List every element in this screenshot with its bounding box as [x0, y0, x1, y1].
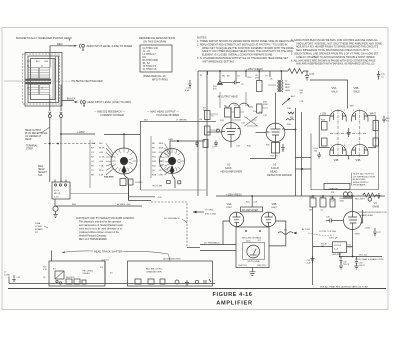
diode V5B upper dome — [352, 110, 369, 121]
junction dots on meter top — [245, 230, 247, 232]
capacitor C between rows — [347, 128, 351, 137]
bracket — [350, 173, 353, 186]
vertical bus x298 — [301, 112, 303, 196]
svg-text:FROM AMPL: FROM AMPL — [353, 184, 367, 187]
svg-text:2: 2 — [331, 110, 332, 112]
feeder stubs from +105 bus — [208, 71, 282, 81]
svg-text:V6B: V6B — [272, 202, 277, 206]
svg-text:AT 105V: AT 105V — [302, 228, 311, 231]
diode V5A lower dome — [330, 144, 347, 155]
svg-text:68.1K: 68.1K — [99, 148, 105, 150]
coil L2 upper right — [40, 68, 50, 79]
box track shifter right — [128, 261, 213, 286]
connector J-head-level — [74, 100, 85, 106]
meter M1 — [247, 245, 260, 258]
svg-text:DETECTOR DRIVER: DETECTOR DRIVER — [267, 173, 292, 177]
wire through box1 — [9, 283, 215, 285]
svg-text:V1 THRU V6: V1 THRU V6 — [143, 68, 157, 71]
svg-text:750 PF: 750 PF — [359, 265, 366, 267]
wavy cable to V3 — [278, 232, 293, 235]
svg-text:GRN: GRN — [285, 90, 290, 92]
svg-text:CURRENT DIVIDER: CURRENT DIVIDER — [100, 113, 124, 117]
svg-text:HEAD: HEAD — [270, 170, 277, 174]
tick on left — [44, 226, 48, 228]
svg-text:NOTE: ADJ OUTPUT: NOTE: ADJ OUTPUT — [353, 173, 375, 176]
svg-text:BRN: BRN — [285, 84, 290, 86]
svg-text:100 KC BIAS & ERASE LEVEL: 100 KC BIAS & ERASE LEVEL — [355, 258, 385, 261]
arrow to grid — [193, 211, 204, 213]
wire BLACK output bottom — [62, 100, 74, 102]
svg-text:10K: 10K — [159, 161, 163, 163]
wires inside shield to plugs — [50, 85, 61, 108]
svg-text:ELEMENT IS CLOSED OVERALL COND: ELEMENT IS CLOSED OVERALL CONDITION REPA… — [202, 53, 273, 56]
wire V3 down — [352, 230, 354, 257]
terminal strip dashed line — [44, 143, 95, 145]
junction dots on feed bus — [219, 70, 221, 72]
wire bottom bus y205 — [55, 205, 142, 207]
wire V5 center tap down — [348, 156, 350, 160]
wire right rail to lower dome — [368, 147, 376, 149]
cluster under V2 — [272, 143, 280, 154]
phono head outer shield box — [25, 53, 62, 107]
svg-text:4.7K: 4.7K — [348, 247, 353, 249]
ground in box2 — [185, 280, 189, 286]
wire +105V feed bus — [198, 70, 288, 72]
svg-text:SELF IMPEDANCE TOTAL BACK: SELF IMPEDANCE TOTAL BACKGROUND CHECK PO… — [296, 49, 369, 52]
box track shifter left — [49, 261, 105, 286]
reference designations box — [140, 45, 172, 72]
wire +105V left line — [61, 133, 140, 136]
svg-text:V6A: V6A — [227, 202, 232, 206]
svg-text:LR 23-4: LR 23-4 — [334, 245, 342, 247]
wire TB1 right bottom — [70, 193, 129, 195]
svg-text:GRN: GRN — [168, 139, 173, 141]
wire +105V REG bus — [216, 195, 385, 197]
svg-text:Hewlett-Packard Company.: Hewlett-Packard Company. — [79, 235, 107, 238]
svg-text:ITS BEING NEUTRALIZED: ITS BEING NEUTRALIZED — [71, 79, 103, 83]
cap on V3 grid — [330, 219, 332, 223]
svg-text:HEAD AMPLIFIER: HEAD AMPLIFIER — [221, 170, 243, 174]
svg-text:1M: 1M — [227, 76, 230, 78]
tube V6B circle — [261, 212, 275, 226]
terminal board TB1 — [52, 182, 70, 199]
wire dashed to meter — [151, 202, 187, 248]
svg-text:L2: L2 — [41, 65, 43, 67]
gray wire y190 — [141, 189, 206, 191]
svg-text:TO PIN 7 OF V4A: TO PIN 7 OF V4A — [319, 230, 336, 233]
svg-text:V5B: V5B — [354, 86, 359, 90]
svg-text:R7A: R7A — [152, 174, 157, 177]
svg-text:C18: C18 — [254, 202, 257, 204]
resistor R21 zigzag — [288, 69, 306, 74]
svg-text:CHANGEOVER: CHANGEOVER — [146, 270, 162, 273]
lower pole piece bar — [26, 82, 52, 84]
wire S1 bottom down — [124, 174, 129, 201]
wire V3 grid left — [332, 220, 344, 222]
svg-text:TO GRID: TO GRID — [205, 210, 214, 212]
svg-text:MAGNETICALLY SHIELDED PHONO HE: MAGNETICALLY SHIELDED PHONO HEAD — [16, 36, 72, 40]
svg-text:330K: 330K — [159, 143, 164, 145]
coil L4 lower right — [40, 85, 50, 95]
svg-text:201: 201 — [258, 240, 261, 242]
resistor R28 — [322, 122, 328, 131]
ground under pot — [54, 215, 58, 218]
svg-text:R44 BRN: R44 BRN — [104, 176, 114, 179]
svg-text:RED: RED — [57, 42, 63, 46]
svg-text:4.7K: 4.7K — [159, 166, 164, 168]
meter inner frame — [243, 243, 265, 260]
wire V3 plate right — [361, 210, 363, 223]
wire V1 grid left — [207, 131, 222, 133]
envelope centerline V5A — [337, 110, 339, 158]
svg-text:R51 R52: R51 R52 — [66, 277, 75, 279]
svg-text:REC LEVEL: REC LEVEL — [83, 271, 93, 273]
upper pole piece bar — [26, 79, 52, 81]
wire from S2 hub up and right — [170, 141, 205, 156]
svg-text:FIGURE 4-16: FIGURE 4-16 — [213, 292, 253, 298]
components left of V3 — [310, 198, 316, 207]
svg-text:V6A 7025: V6A 7025 — [238, 264, 248, 267]
svg-text:MIC IN: MIC IN — [54, 193, 61, 195]
wire V6B right — [269, 221, 286, 246]
cap C33 with ground — [355, 257, 359, 270]
svg-text:DC FEEDBACK: DC FEEDBACK — [164, 217, 180, 220]
vertical bus from +105 feed left — [197, 71, 199, 196]
cap C27 right of V3 — [373, 228, 376, 237]
switch S1 wafer (left spoked) — [111, 148, 137, 174]
wire x312.5 to bottom — [312, 247, 314, 286]
head output plug annotation — [25, 129, 48, 141]
capacitor bias — [377, 193, 380, 199]
leader to plug — [41, 127, 50, 133]
resistor R34 — [373, 138, 379, 146]
svg-text:220K: 220K — [263, 104, 268, 106]
svg-text:HEAD: HEAD — [38, 168, 45, 171]
wire T3 bottom down — [339, 253, 341, 257]
wire RED output top — [50, 46, 73, 68]
ref box contents — [143, 47, 159, 71]
svg-text:AS VIEWED AT: AS VIEWED AT — [25, 135, 42, 138]
arrow on cable — [293, 232, 297, 235]
connector J-zero-level — [69, 44, 85, 50]
S2 bottom terminal boxes — [167, 180, 171, 183]
tube V2 circle — [266, 123, 285, 142]
svg-text:HEAD INPUT LEVEL (LINE) TO AMP: HEAD INPUT LEVEL (LINE) TO AMPL — [87, 100, 132, 104]
svg-text:ADJ: ADJ — [291, 95, 295, 98]
svg-text:C2A: C2A — [91, 142, 96, 145]
V1 electrodes — [222, 123, 241, 142]
transformer T3 box — [333, 242, 347, 253]
left edge cap and ground — [9, 275, 16, 284]
svg-text:RED: RED — [285, 87, 290, 89]
svg-text:TERMINAL: TERMINAL — [26, 145, 38, 148]
svg-text:L1: L1 — [27, 65, 29, 67]
svg-text:(A) CHANGEOVER: (A) CHANGEOVER — [163, 258, 181, 261]
svg-text:R24: R24 — [246, 202, 249, 204]
svg-text:S1A: S1A — [38, 174, 43, 177]
TB1 pins — [55, 180, 66, 183]
components between V1 V2: resistor boxes — [205, 111, 211, 120]
svg-text:UNIT IMPEDANCE SETTING: UNIT IMPEDANCE SETTING — [202, 60, 234, 63]
wire T3 to V3 vertical — [347, 246, 353, 248]
pin labels V5 — [331, 110, 367, 147]
svg-text:VOLTAGE DIVIDER: VOLTAGE DIVIDER — [156, 113, 179, 117]
diode V5B lower dome — [352, 144, 369, 155]
svg-text:22K: 22K — [159, 157, 163, 159]
junction dot — [301, 168, 303, 170]
svg-text:203A: 203A — [35, 222, 41, 225]
right interstage transformer — [278, 80, 284, 92]
svg-text:produced without written conse: produced without written consent of the — [79, 231, 120, 234]
svg-text:and maintenance of Hewlett-Pac: and maintenance of Hewlett-Packard equip… — [79, 224, 124, 227]
resistor zigzag bias — [363, 193, 378, 197]
vertical bus x207 — [206, 71, 208, 196]
connector P1 pin left — [48, 112, 51, 120]
svg-text:7.5K: 7.5K — [99, 166, 104, 168]
wire divider vertical — [139, 121, 141, 190]
head gap line — [20, 80, 70, 82]
phono head middle shield box — [28, 56, 59, 103]
V6A electrodes — [233, 212, 241, 226]
pot arrow right — [282, 98, 290, 105]
svg-text:(VU): (VU) — [246, 240, 251, 242]
S1 label rail — [89, 140, 91, 188]
transformer T1 humps — [225, 103, 253, 107]
svg-text:T3 (T-20): T3 (T-20) — [359, 255, 368, 257]
svg-text:12AU6: 12AU6 — [271, 166, 279, 170]
V6B electrodes — [265, 212, 273, 226]
inner shield wall right — [53, 56, 56, 103]
svg-text:M1 (TS-101A): M1 (TS-101A) — [248, 260, 260, 263]
small parts in box2 — [195, 279, 211, 284]
S1 wires to wafer — [106, 144, 114, 176]
wire left rail of V5 — [319, 116, 330, 148]
V3 electrodes — [348, 212, 357, 231]
svg-text:7: 7 — [344, 110, 345, 112]
bracket note right — [353, 173, 375, 187]
meter box — [236, 227, 269, 268]
svg-text:PRI: PRI — [331, 192, 335, 194]
connector circle in box2 — [175, 280, 179, 284]
wire right vertical from P1 — [60, 120, 62, 183]
svg-text:150K: 150K — [340, 200, 345, 202]
svg-text:R14 1.5M: R14 1.5M — [153, 186, 163, 188]
wire V5 bottom joining — [330, 155, 368, 157]
svg-text:+105V: +105V — [77, 130, 85, 134]
svg-text:ADJ BAL LEVEL: ADJ BAL LEVEL — [146, 267, 163, 270]
svg-text:C6 R10: C6 R10 — [135, 182, 143, 184]
transformer labels — [285, 81, 290, 92]
svg-text:R17 270: R17 270 — [271, 156, 279, 158]
envelope centerline horizontal — [330, 132, 367, 134]
riser into box1 — [51, 251, 53, 262]
svg-text:AMPLIFIER: AMPLIFIER — [216, 301, 252, 307]
wire S2 bottom down — [172, 174, 175, 188]
svg-text:AF OUTPUT HEAD: AF OUTPUT HEAD — [218, 96, 238, 99]
svg-text:1: 1 — [331, 145, 332, 147]
ground below V5 left — [317, 152, 321, 158]
svg-text:L4: L4 — [41, 87, 43, 89]
svg-text:PLUG RECEPTACLE: PLUG RECEPTACLE — [25, 132, 48, 135]
svg-text:V6B 7025: V6B 7025 — [257, 265, 267, 267]
diode V5A upper dome — [330, 110, 347, 121]
V2 electrodes — [266, 123, 285, 142]
tube V1 circle — [222, 123, 241, 142]
envelope centerline V5B — [359, 110, 361, 158]
cap C32 with ground — [339, 257, 343, 270]
svg-text:4 µF: 4 µF — [307, 263, 312, 265]
labels left of V3 — [309, 197, 335, 212]
svg-text:REV 14-3 TRANSFERRED: REV 14-3 TRANSFERRED — [79, 238, 107, 241]
svg-text:1.8K: 1.8K — [159, 175, 164, 177]
svg-text:DC AMPLIFIER: DC AMPLIFIER — [242, 209, 258, 212]
wire node line y157 — [296, 157, 312, 159]
svg-text:6AU6: 6AU6 — [225, 166, 232, 170]
junction dot V2 out — [295, 129, 297, 131]
svg-text:(PIN 2) V6A: (PIN 2) V6A — [205, 213, 216, 216]
svg-text:SELECT: SELECT — [38, 172, 48, 174]
wire V2 plate right — [285, 129, 296, 131]
resistors in box2 — [135, 279, 141, 284]
wire V5 feed — [310, 80, 348, 109]
junction on left rail — [49, 143, 51, 145]
labels cluster — [200, 75, 295, 149]
svg-text:BLK-WHT: BLK-WHT — [355, 199, 366, 201]
svg-text:BOARD: BOARD — [35, 228, 43, 231]
svg-text:C16: C16 — [300, 101, 303, 103]
svg-text:12AX7: 12AX7 — [226, 206, 233, 209]
svg-text:47K: 47K — [213, 89, 217, 91]
svg-text:LT GREEN: LT GREEN — [176, 119, 187, 121]
box ORANGE — [324, 184, 350, 190]
components above DC amp left — [120, 179, 126, 186]
wire right rail of V5 — [368, 116, 376, 148]
notes column B — [291, 39, 382, 66]
ground under meter — [249, 268, 255, 276]
relay K1 — [55, 271, 64, 279]
svg-text:GREY: GREY — [355, 234, 361, 236]
transformer T2 core — [343, 192, 352, 198]
label mag head select — [38, 165, 48, 177]
svg-text:ON THIS DIAGRAM: ON THIS DIAGRAM — [143, 40, 166, 44]
head gap line left — [4, 80, 20, 82]
pot symbol — [53, 206, 58, 214]
svg-text:6AL5: 6AL5 — [332, 90, 339, 94]
phono head inner shield box — [31, 59, 56, 100]
wires into meter left — [200, 244, 236, 246]
svg-text:IN RECORD: IN RECORD — [353, 179, 366, 181]
capacitor C17 — [305, 71, 309, 81]
DC amplifier box — [241, 207, 263, 212]
svg-text:6AN8: 6AN8 — [373, 204, 380, 208]
cap C1 — [189, 80, 192, 89]
wire head lead right — [60, 108, 62, 112]
wire left rail to lower dome — [319, 147, 330, 149]
wire 100kc bus — [340, 256, 382, 258]
V5 module enclosure — [311, 131, 379, 190]
wire V2 grid left — [256, 132, 267, 134]
resistor R30 — [322, 138, 328, 146]
crystal circle — [368, 198, 372, 202]
stubs from bus to boxes — [313, 196, 353, 211]
svg-text:+105V (REG): +105V (REG) — [226, 193, 242, 197]
svg-text:COPYRIGHT 1957 BY HEWLETT-PACK: COPYRIGHT 1957 BY HEWLETT-PACKARD COMPAN… — [76, 217, 135, 220]
svg-text:ORANGE: ORANGE — [329, 187, 339, 190]
svg-text:2: 2 — [353, 110, 354, 112]
S2 pointer — [170, 165, 175, 174]
crossing wires — [245, 117, 259, 127]
wire V6A left — [223, 221, 229, 245]
wire V1 plate to T1 — [230, 107, 232, 123]
svg-text:R60 ADJ: R60 ADJ — [83, 272, 91, 275]
wire left vertical from P1 — [49, 120, 51, 183]
resistor boxes in box1 — [66, 279, 72, 284]
wire to dc amp — [129, 200, 152, 202]
junction dots on reg bus — [312, 195, 314, 197]
svg-text:ALK-WHT: ALK-WHT — [333, 253, 343, 256]
tube V6A circle — [229, 212, 243, 226]
svg-text:AND ARE INDEPENDENT WITH TAP B: AND ARE INDEPENDENT WITH TAP BIAS. AS RE… — [296, 63, 375, 66]
svg-text:J1 (1): J1 (1) — [54, 190, 59, 192]
svg-text:1M: 1M — [309, 210, 312, 212]
label 203A connector — [35, 222, 43, 234]
svg-text:HEAD OUTPUT: HEAD OUTPUT — [25, 129, 42, 132]
svg-text:NOTES:: NOTES: — [197, 36, 207, 40]
svg-text:MAG: MAG — [38, 165, 43, 168]
test point TP1 circle — [217, 129, 220, 132]
svg-text:REAR: REAR — [25, 138, 32, 141]
svg-text:BLACK: BLACK — [67, 97, 76, 101]
vertical bus x294.5 — [295, 108, 297, 196]
svg-text:(PREFIXED) DL-14: (PREFIXED) DL-14 — [143, 74, 166, 78]
wire node line y169 — [296, 168, 312, 170]
svg-text:6AL5: 6AL5 — [354, 90, 361, 94]
svg-text:BLK: BLK — [144, 119, 149, 121]
V3 sync detector circle — [344, 212, 362, 230]
capacitor C26 — [382, 116, 386, 123]
S2 wafer labels — [152, 143, 164, 177]
small squiggles right of V2 — [286, 112, 294, 120]
svg-text:C30 1 µF: C30 1 µF — [329, 238, 338, 240]
svg-text:V1: V1 — [227, 163, 231, 167]
cap C31 on vertical — [311, 256, 315, 263]
switch S2 wafer (right spoked) — [160, 149, 185, 175]
svg-text:5: 5 — [344, 145, 345, 147]
vertical in box1 — [104, 261, 106, 283]
wire into meter — [187, 247, 200, 249]
svg-text:AT REG +105: AT REG +105 — [117, 203, 131, 206]
svg-text:C17: C17 — [310, 72, 315, 76]
svg-text:2.5MH: 2.5MH — [4, 274, 10, 276]
wire x312.5 down — [312, 207, 314, 247]
svg-text:4 µF: 4 µF — [185, 90, 190, 92]
svg-text:DC FEEDBACK: DC FEEDBACK — [204, 242, 220, 245]
S2 label rail — [150, 136, 152, 178]
svg-text:47K: 47K — [159, 152, 163, 154]
svg-text:W1: W1 — [284, 230, 287, 232]
junction dots on bus — [339, 256, 341, 258]
junction dot on +105 left — [123, 133, 125, 135]
main bottom rule — [8, 288, 386, 290]
test point symbol — [217, 81, 234, 85]
svg-text:+105V (FEED): +105V (FEED) — [246, 67, 263, 71]
wire from S1 top to +105 — [123, 134, 125, 148]
svg-text:7: 7 — [366, 110, 367, 112]
wire into T3 — [313, 246, 333, 248]
connector P1 pin right — [60, 112, 63, 120]
wire +105 stub — [129, 196, 155, 198]
svg-text:750 PF: 750 PF — [343, 264, 350, 266]
